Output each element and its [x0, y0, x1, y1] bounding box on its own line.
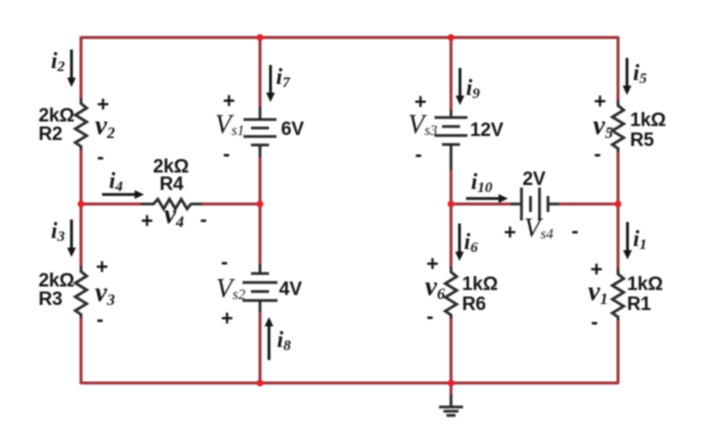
current arrow i1	[623, 222, 632, 260]
svg-text:+: +	[223, 90, 235, 113]
current arrow i3	[67, 220, 76, 258]
svg-text:-: -	[97, 146, 104, 169]
svg-text:1kΩ: 1kΩ	[627, 274, 663, 295]
current arrow i2	[67, 50, 76, 88]
node mid left junction	[78, 201, 85, 208]
svg-text:v6: v6	[425, 271, 445, 303]
svg-text:+: +	[594, 90, 606, 113]
ground	[439, 395, 463, 416]
battery Vs3	[435, 110, 468, 170]
svg-text:1kΩ: 1kΩ	[462, 274, 498, 295]
svg-text:Vs3: Vs3	[408, 109, 437, 139]
wire left rail lower (R3 to bottom)	[80, 318, 83, 384]
wire mid left segment (left rail to R4)	[81, 203, 142, 206]
svg-text:+: +	[97, 93, 109, 116]
svg-text:i7: i7	[276, 64, 290, 91]
wire right rail lower (R1 to bottom)	[617, 321, 620, 385]
svg-text:Vs2: Vs2	[216, 273, 245, 303]
wire R6 branch bottom (R6 to bottom rail)	[450, 319, 453, 384]
wire Vs3 branch bottom (Vs3 to mid wire)	[450, 170, 453, 204]
svg-text:12V: 12V	[470, 120, 504, 141]
battery Vs1	[244, 107, 277, 157]
svg-text:R5: R5	[630, 130, 655, 151]
svg-text:-: -	[427, 306, 434, 329]
svg-text:+: +	[141, 210, 153, 233]
svg-text:+: +	[426, 252, 438, 275]
current arrow i10	[466, 194, 508, 203]
svg-text:-: -	[221, 251, 228, 274]
svg-text:i1: i1	[633, 226, 647, 253]
svg-text:6V: 6V	[281, 119, 304, 140]
wire mid right segment (Vs4 to right rail)	[559, 203, 618, 206]
wire Vs2 branch top (mid wire to Vs2)	[259, 204, 262, 264]
svg-text:v4: v4	[164, 199, 184, 231]
node top Vs1 junction	[257, 34, 264, 41]
svg-text:-: -	[97, 309, 104, 332]
wire left rail middle (R2 to R3)	[80, 150, 83, 266]
node bottom Vs2 junction	[257, 380, 264, 387]
battery Vs2	[243, 264, 278, 312]
resistor R6	[445, 267, 456, 319]
resistor R2	[75, 98, 86, 150]
svg-text:1kΩ: 1kΩ	[630, 110, 666, 131]
svg-text:+: +	[221, 307, 233, 330]
svg-text:v3: v3	[95, 277, 115, 309]
svg-text:-: -	[594, 143, 601, 166]
wire Vs1 branch top (top rail to Vs1)	[259, 38, 262, 108]
wire top rail	[81, 36, 618, 39]
svg-text:i4: i4	[109, 168, 123, 195]
wire Vs1 branch bottom (Vs1 to mid wire)	[259, 157, 262, 204]
resistor R3	[75, 266, 86, 318]
resistor R4	[141, 199, 202, 209]
node bottom ground junction	[448, 380, 455, 387]
current arrow i8 (points up)	[265, 317, 274, 360]
svg-text:R2: R2	[39, 124, 63, 145]
wire mid right segment (Vs3 branch to Vs4)	[451, 203, 511, 206]
svg-text:-: -	[591, 311, 598, 334]
svg-text:v5: v5	[593, 110, 613, 142]
current arrow i9	[456, 68, 465, 105]
svg-text:+: +	[504, 221, 516, 244]
svg-text:+: +	[590, 258, 602, 281]
current arrow i5	[623, 58, 632, 95]
node top Vs3 junction	[448, 34, 455, 41]
svg-text:Vs1: Vs1	[215, 109, 244, 139]
battery Vs4	[511, 188, 560, 221]
node mid right junction	[615, 201, 622, 208]
wire mid left segment (R4 to Vs1 branch)	[201, 203, 260, 206]
svg-text:+: +	[414, 90, 426, 113]
svg-text:R1: R1	[627, 294, 652, 315]
svg-text:-: -	[200, 209, 207, 232]
svg-text:i3: i3	[51, 218, 65, 245]
wire R6 branch top (mid wire to R6)	[450, 204, 453, 267]
svg-text:i6: i6	[464, 229, 478, 256]
svg-text:-: -	[572, 220, 579, 243]
svg-text:-: -	[415, 144, 422, 167]
svg-text:R3: R3	[39, 289, 63, 310]
svg-text:-: -	[223, 143, 230, 166]
svg-text:+: +	[96, 256, 108, 279]
node mid Vs3 junction	[448, 201, 455, 208]
resistor R1	[612, 269, 623, 321]
wire right rail middle (R5 to R1)	[617, 152, 620, 269]
svg-text:i8: i8	[277, 327, 291, 354]
wire right rail upper (top to R5)	[617, 36, 620, 100]
current arrow i4	[102, 190, 144, 199]
svg-text:i9: i9	[466, 75, 480, 102]
wire bottom rail	[81, 382, 618, 385]
wire Vs2 branch bottom (Vs2 to bottom rail)	[259, 312, 262, 384]
svg-text:Vs4: Vs4	[524, 213, 553, 243]
current arrow i7	[266, 65, 275, 102]
svg-text:i2: i2	[51, 48, 65, 75]
wire ground stub	[450, 383, 453, 395]
svg-text:i10: i10	[471, 169, 493, 196]
svg-text:4V: 4V	[279, 279, 302, 300]
svg-text:R4: R4	[160, 174, 185, 195]
svg-text:R6: R6	[462, 294, 486, 315]
wire left rail upper (top to R2)	[80, 36, 83, 98]
svg-text:2V: 2V	[523, 169, 546, 190]
wire Vs3 branch top (top rail to Vs3)	[450, 38, 453, 111]
node mid Vs1 junction	[257, 201, 264, 208]
resistor R5	[612, 100, 623, 152]
svg-text:i5: i5	[633, 60, 647, 87]
current arrow i6	[455, 224, 464, 262]
